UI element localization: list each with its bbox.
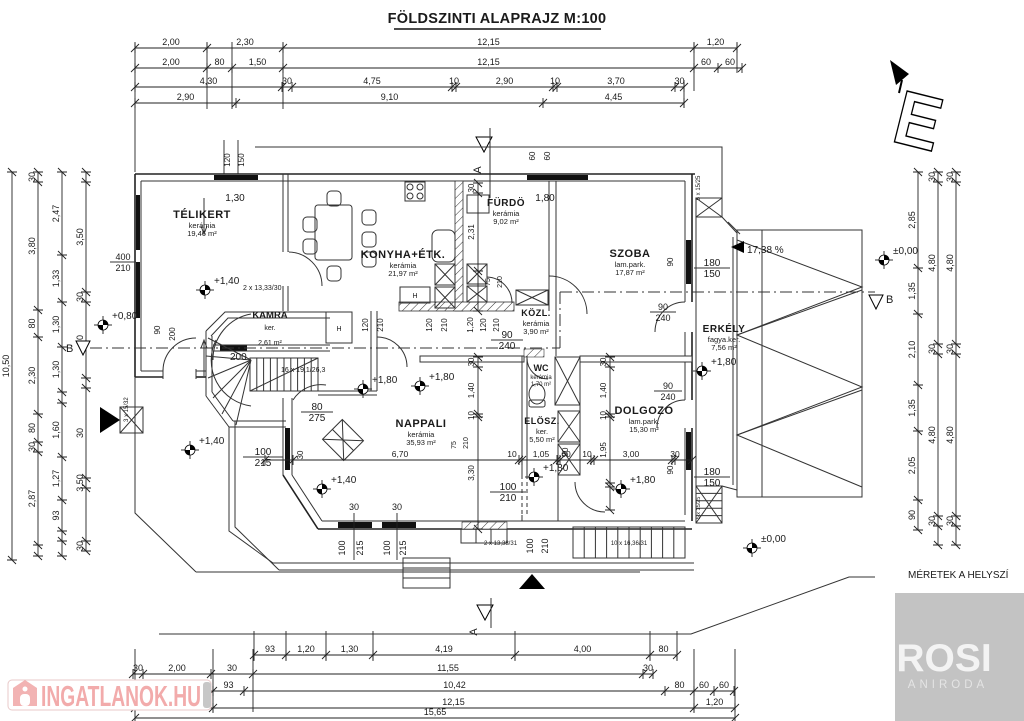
svg-text:ROSI: ROSI (896, 637, 991, 680)
svg-text:90: 90 (658, 302, 668, 312)
svg-text:80: 80 (658, 644, 668, 654)
svg-text:MÉRETEK A HELYSZÍ: MÉRETEK A HELYSZÍ (908, 568, 1009, 581)
svg-text:240: 240 (660, 392, 675, 402)
svg-text:+0,80: +0,80 (112, 311, 138, 322)
svg-text:4,80: 4,80 (927, 254, 937, 272)
svg-text:4,45: 4,45 (605, 92, 623, 102)
svg-text:93: 93 (265, 644, 275, 654)
svg-text:9,02 m²: 9,02 m² (493, 217, 519, 226)
svg-text:30: 30 (945, 344, 955, 354)
svg-text:30: 30 (227, 663, 237, 673)
svg-text:+1,80: +1,80 (543, 463, 569, 474)
svg-text:A: A (472, 166, 484, 174)
svg-text:2,00: 2,00 (162, 37, 180, 47)
svg-text:30: 30 (467, 183, 476, 192)
svg-text:10,50: 10,50 (1, 355, 11, 378)
svg-text:3,50: 3,50 (75, 228, 85, 246)
svg-text:240: 240 (655, 313, 670, 323)
svg-text:DOLGOZÓ: DOLGOZÓ (614, 404, 673, 417)
svg-text:4,80: 4,80 (945, 426, 955, 444)
svg-text:275: 275 (309, 413, 326, 424)
svg-text:4,75: 4,75 (363, 76, 381, 86)
svg-text:210: 210 (440, 318, 449, 332)
svg-text:1,05: 1,05 (533, 449, 550, 459)
svg-text:120: 120 (425, 318, 434, 332)
svg-text:60: 60 (699, 680, 709, 690)
svg-text:30: 30 (674, 76, 684, 86)
svg-text:90: 90 (153, 325, 162, 334)
svg-text:+1,80: +1,80 (711, 357, 737, 368)
svg-text:150: 150 (237, 153, 246, 167)
svg-text:93: 93 (223, 680, 233, 690)
svg-text:90: 90 (666, 465, 675, 474)
svg-text:1,20: 1,20 (707, 37, 725, 47)
svg-text:180: 180 (704, 467, 721, 478)
svg-text:3 x 15/32: 3 x 15/32 (124, 397, 130, 422)
svg-text:1,35: 1,35 (907, 282, 917, 300)
svg-text:30: 30 (927, 516, 937, 526)
svg-text:90: 90 (501, 330, 513, 341)
svg-text:17,87 m²: 17,87 m² (615, 268, 645, 277)
svg-text:100: 100 (382, 540, 392, 555)
svg-text:30: 30 (27, 442, 37, 452)
svg-text:WC: WC (534, 363, 549, 373)
svg-text:200: 200 (230, 352, 247, 363)
svg-text:4,80: 4,80 (927, 426, 937, 444)
svg-text:+1,40: +1,40 (331, 475, 357, 486)
svg-text:90: 90 (666, 257, 675, 266)
svg-text:ANIRODA: ANIRODA (908, 679, 988, 691)
svg-text:75: 75 (451, 441, 458, 449)
svg-text:30: 30 (282, 76, 292, 86)
svg-text:100: 100 (525, 538, 535, 553)
svg-text:30: 30 (467, 357, 476, 366)
svg-text:30: 30 (927, 344, 937, 354)
svg-text:30: 30 (75, 541, 85, 551)
svg-text:2,47: 2,47 (51, 205, 61, 223)
svg-text:30: 30 (349, 502, 359, 512)
svg-text:10: 10 (449, 76, 459, 86)
svg-text:1,20: 1,20 (297, 644, 315, 654)
svg-text:180: 180 (704, 258, 721, 269)
svg-text:2,30: 2,30 (236, 37, 254, 47)
svg-text:400: 400 (115, 252, 130, 262)
svg-text:INGATLANOK.HU: INGATLANOK.HU (41, 681, 201, 713)
svg-text:B: B (66, 343, 73, 355)
svg-text:215: 215 (255, 458, 272, 469)
svg-text:2,90: 2,90 (177, 92, 195, 102)
svg-text:30: 30 (296, 450, 305, 459)
svg-text:1,80: 1,80 (535, 193, 555, 204)
svg-text:215: 215 (355, 540, 365, 555)
svg-text:15,30 m²: 15,30 m² (629, 425, 659, 434)
svg-text:30: 30 (945, 172, 955, 182)
svg-text:2,05: 2,05 (907, 457, 917, 475)
svg-text:215: 215 (398, 540, 408, 555)
svg-text:ker.: ker. (264, 325, 275, 332)
svg-text:1,20: 1,20 (706, 697, 724, 707)
svg-text:75: 75 (485, 278, 492, 286)
svg-text:60: 60 (543, 151, 552, 160)
svg-text:4,80: 4,80 (945, 254, 955, 272)
svg-text:KONYHA+ÉTK.: KONYHA+ÉTK. (361, 248, 446, 261)
svg-text:12,15: 12,15 (477, 57, 500, 67)
svg-text:+1,40: +1,40 (214, 276, 240, 287)
svg-text:3,80: 3,80 (27, 237, 37, 255)
svg-text:90: 90 (663, 381, 673, 391)
svg-text:80: 80 (674, 680, 684, 690)
svg-text:15,65: 15,65 (424, 707, 447, 717)
svg-text:FÜRDÖ: FÜRDÖ (487, 196, 525, 209)
svg-text:10: 10 (582, 449, 592, 459)
svg-text:17,38 %: 17,38 % (747, 245, 784, 256)
svg-text:100: 100 (255, 447, 272, 458)
svg-text:ELÖSZ.: ELÖSZ. (524, 416, 560, 426)
svg-text:60: 60 (528, 151, 537, 160)
svg-text:1,70 m²: 1,70 m² (531, 382, 551, 388)
svg-text:30: 30 (75, 428, 85, 438)
svg-text:210: 210 (540, 538, 550, 553)
svg-text:1,20: 1,20 (466, 317, 475, 333)
svg-text:10: 10 (550, 76, 560, 86)
svg-text:80: 80 (214, 57, 224, 67)
svg-text:2,90: 2,90 (496, 76, 514, 86)
svg-text:30: 30 (670, 449, 680, 459)
svg-text:150: 150 (704, 269, 721, 280)
svg-text:80: 80 (27, 318, 37, 328)
svg-text:4,00: 4,00 (574, 644, 592, 654)
svg-text:21,97 m²: 21,97 m² (388, 269, 418, 278)
svg-text:30: 30 (133, 663, 143, 673)
svg-text:30: 30 (643, 663, 653, 673)
svg-text:+1,40: +1,40 (199, 436, 225, 447)
svg-text:60: 60 (725, 57, 735, 67)
svg-text:35,93 m²: 35,93 m² (406, 438, 436, 447)
svg-text:NAPPALI: NAPPALI (396, 418, 447, 430)
svg-text:1,50: 1,50 (249, 57, 267, 67)
svg-text:1,30: 1,30 (341, 644, 359, 654)
svg-text:2,85: 2,85 (907, 211, 917, 229)
svg-text:80: 80 (311, 402, 323, 413)
svg-text:100: 100 (500, 482, 517, 493)
svg-text:120: 120 (361, 318, 370, 332)
svg-text:B: B (886, 294, 893, 306)
svg-text:30: 30 (945, 516, 955, 526)
svg-text:2 x 13,38/31: 2 x 13,38/31 (484, 541, 518, 547)
svg-text:80: 80 (27, 423, 37, 433)
svg-text:210: 210 (500, 493, 517, 504)
svg-text:60: 60 (701, 57, 711, 67)
svg-text:3,90 m²: 3,90 m² (523, 327, 549, 336)
svg-text:kerámia: kerámia (530, 375, 552, 381)
svg-text:KÖZL.: KÖZL. (521, 308, 551, 318)
svg-text:1,30: 1,30 (51, 316, 61, 334)
svg-text:30: 30 (392, 502, 402, 512)
svg-text:2,87: 2,87 (27, 490, 37, 508)
svg-text:2 x 13,33/30: 2 x 13,33/30 (243, 285, 282, 292)
svg-text:10: 10 (599, 411, 608, 420)
svg-text:1,40: 1,40 (599, 382, 608, 398)
svg-text:7,56 m²: 7,56 m² (711, 343, 737, 352)
svg-text:1,30: 1,30 (51, 361, 61, 379)
svg-text:200: 200 (168, 327, 177, 341)
svg-text:9,10: 9,10 (381, 92, 399, 102)
svg-text:2,31: 2,31 (467, 224, 476, 240)
svg-text:10 x 16,36/31: 10 x 16,36/31 (611, 541, 648, 547)
svg-text:1,27: 1,27 (51, 470, 61, 488)
svg-text:3,70: 3,70 (607, 76, 625, 86)
svg-text:1,95: 1,95 (599, 442, 608, 458)
svg-text:30: 30 (927, 172, 937, 182)
svg-text:KAMRA: KAMRA (252, 310, 287, 321)
svg-text:120: 120 (223, 153, 232, 167)
svg-text:93: 93 (51, 510, 61, 520)
svg-text:4,30: 4,30 (200, 76, 218, 86)
svg-text:FÖLDSZINTI ALAPRAJZ M:100: FÖLDSZINTI ALAPRAJZ M:100 (388, 10, 607, 27)
svg-text:ERKÉLY: ERKÉLY (703, 322, 746, 335)
svg-text:±0,00: ±0,00 (893, 246, 918, 257)
svg-text:2,61 m²: 2,61 m² (258, 340, 282, 347)
svg-text:2,10: 2,10 (907, 341, 917, 359)
svg-text:210: 210 (492, 318, 501, 332)
svg-text:90: 90 (561, 447, 570, 456)
svg-text:SZOBA: SZOBA (610, 248, 651, 260)
svg-text:1,30: 1,30 (225, 193, 245, 204)
svg-text:TÉLIKERT: TÉLIKERT (173, 208, 231, 221)
svg-text:210: 210 (463, 437, 470, 449)
svg-text:1,40: 1,40 (467, 382, 476, 398)
svg-text:1,33: 1,33 (51, 270, 61, 288)
svg-text:3,00: 3,00 (623, 449, 640, 459)
svg-text:2,30: 2,30 (27, 367, 37, 385)
svg-text:H: H (412, 293, 417, 300)
svg-text:12,15: 12,15 (477, 37, 500, 47)
svg-text:H: H (336, 326, 341, 333)
svg-text:5,50 m²: 5,50 m² (529, 435, 555, 444)
svg-text:5 x 15/25: 5 x 15/25 (696, 175, 702, 200)
svg-text:11,55: 11,55 (437, 663, 459, 673)
svg-text:1,35: 1,35 (907, 399, 917, 417)
svg-text:12,15: 12,15 (442, 697, 465, 707)
svg-text:16 x 19,1/26,3: 16 x 19,1/26,3 (281, 367, 325, 374)
svg-text:30: 30 (27, 172, 37, 182)
svg-text:+1,80: +1,80 (630, 475, 656, 486)
svg-text:10: 10 (507, 449, 517, 459)
svg-text:19,46 m²: 19,46 m² (187, 229, 217, 238)
svg-text:5 x 15/25: 5 x 15/25 (696, 497, 702, 520)
svg-text:240: 240 (499, 341, 516, 352)
svg-text:210: 210 (376, 318, 385, 332)
svg-text:3,50: 3,50 (75, 474, 85, 492)
svg-text:6,70: 6,70 (392, 449, 409, 459)
svg-text:100: 100 (337, 540, 347, 555)
svg-text:±0,00: ±0,00 (761, 534, 786, 545)
svg-text:2,00: 2,00 (168, 663, 186, 673)
svg-text:10: 10 (467, 411, 476, 420)
svg-text:1,60: 1,60 (51, 421, 61, 439)
svg-text:120: 120 (479, 318, 488, 332)
svg-text:2,00: 2,00 (162, 57, 180, 67)
svg-text:210: 210 (115, 263, 130, 273)
svg-text:60: 60 (719, 680, 729, 690)
svg-text:+1,80: +1,80 (429, 372, 455, 383)
svg-text:4,19: 4,19 (435, 644, 453, 654)
svg-text:3,30: 3,30 (467, 465, 476, 481)
svg-text:90: 90 (907, 510, 917, 520)
svg-text:10,42: 10,42 (443, 680, 466, 690)
svg-text:+1,80: +1,80 (372, 375, 398, 386)
svg-text:30: 30 (75, 292, 85, 302)
svg-text:30: 30 (599, 357, 608, 366)
svg-text:150: 150 (704, 478, 721, 489)
svg-text:210: 210 (497, 276, 504, 288)
